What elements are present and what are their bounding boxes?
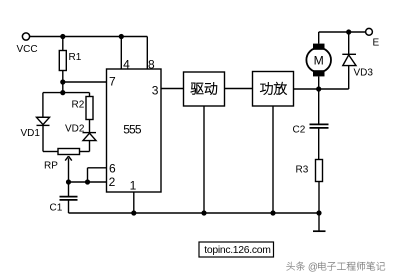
svg-text:3: 3	[152, 83, 159, 97]
svg-text:VD2: VD2	[65, 124, 85, 135]
svg-text:2: 2	[109, 175, 116, 189]
svg-text:4: 4	[123, 57, 130, 71]
svg-text:1: 1	[130, 179, 137, 193]
svg-text:RP: RP	[44, 161, 58, 172]
svg-text:VD1: VD1	[21, 128, 41, 139]
svg-text:R1: R1	[69, 52, 82, 63]
svg-text:8: 8	[148, 57, 155, 71]
svg-text:VD3: VD3	[354, 68, 374, 79]
svg-text:C2: C2	[293, 125, 306, 136]
svg-text:E: E	[373, 37, 380, 48]
svg-text:C1: C1	[50, 203, 63, 214]
svg-text:R2: R2	[72, 100, 85, 111]
svg-text:7: 7	[109, 75, 116, 89]
svg-text:topinc.126.com: topinc.126.com	[204, 245, 270, 256]
svg-text:R3: R3	[296, 165, 309, 176]
svg-text:@: @	[308, 262, 318, 273]
svg-text:6: 6	[109, 161, 116, 175]
svg-text:555: 555	[123, 122, 142, 136]
svg-text:M: M	[314, 54, 324, 68]
svg-text:VCC: VCC	[17, 44, 38, 55]
